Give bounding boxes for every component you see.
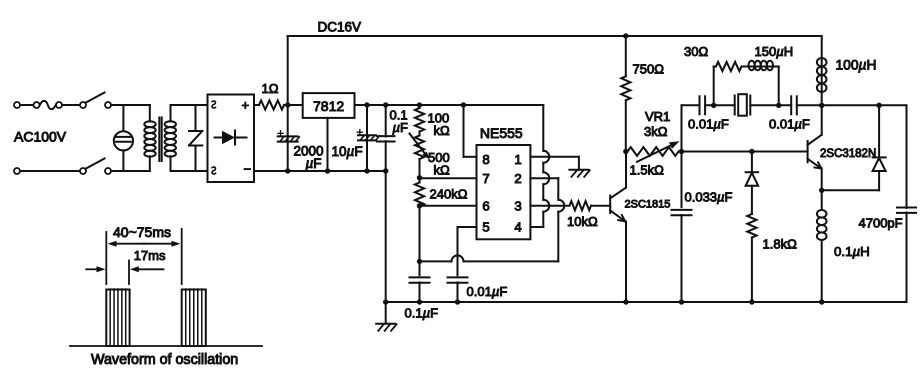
svg-text:17ms: 17ms (134, 248, 166, 263)
svg-text:7: 7 (482, 171, 489, 186)
svg-text:µF: µF (306, 156, 322, 171)
svg-text:750Ω: 750Ω (633, 62, 665, 77)
svg-text:0.1µF: 0.1µF (405, 306, 439, 321)
svg-text:6: 6 (482, 198, 489, 213)
svg-text:5: 5 (482, 220, 489, 235)
svg-text:150µH: 150µH (755, 44, 794, 59)
svg-text:1.8kΩ: 1.8kΩ (763, 237, 798, 252)
svg-text:+: + (242, 98, 250, 113)
svg-text:2SC1815: 2SC1815 (625, 199, 671, 211)
svg-text:0.01µF: 0.01µF (769, 117, 810, 132)
svg-text:DC16V: DC16V (318, 20, 362, 35)
svg-text:µF: µF (393, 120, 409, 135)
svg-text:−: − (244, 162, 252, 177)
svg-text:0.033µF: 0.033µF (685, 189, 733, 204)
svg-text:7812: 7812 (313, 98, 344, 114)
svg-text:0.01µF: 0.01µF (467, 284, 508, 299)
svg-text:NE555: NE555 (480, 125, 523, 141)
svg-text:2SC3182N: 2SC3182N (820, 148, 876, 160)
svg-text:4: 4 (514, 220, 521, 235)
svg-text:8: 8 (482, 152, 489, 167)
svg-text:kΩ: kΩ (434, 123, 451, 138)
svg-text:VR1: VR1 (645, 109, 670, 124)
svg-text:1: 1 (514, 152, 521, 167)
svg-text:0.1µH: 0.1µH (834, 244, 870, 259)
svg-text:3: 3 (514, 198, 521, 213)
svg-text:0.01µF: 0.01µF (688, 117, 729, 132)
svg-text:2: 2 (514, 171, 521, 186)
svg-text:3kΩ: 3kΩ (644, 124, 668, 139)
svg-text:kΩ: kΩ (434, 163, 451, 178)
svg-text:Waveform of oscillation: Waveform of oscillation (91, 352, 238, 368)
svg-text:1.5kΩ: 1.5kΩ (630, 163, 665, 178)
svg-text:240kΩ: 240kΩ (430, 187, 468, 202)
svg-text:30Ω: 30Ω (684, 44, 708, 59)
svg-text:AC100V: AC100V (14, 129, 67, 145)
svg-text:4700pF: 4700pF (859, 216, 903, 231)
svg-text:100µH: 100µH (836, 58, 877, 73)
svg-text:40~75ms: 40~75ms (113, 224, 171, 240)
svg-text:1Ω: 1Ω (262, 81, 279, 96)
svg-text:10kΩ: 10kΩ (567, 214, 598, 229)
svg-text:10µF: 10µF (332, 144, 363, 159)
